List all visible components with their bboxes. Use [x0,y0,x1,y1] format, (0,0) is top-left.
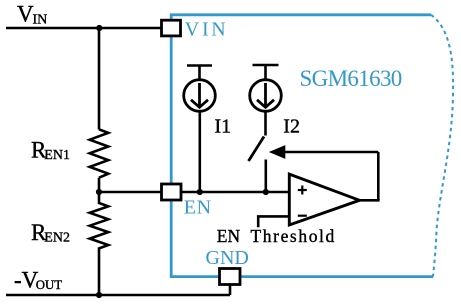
svg-text:Threshold: Threshold [251,226,336,246]
svg-text:EN: EN [217,226,241,246]
wire EN node to EN pin [99,191,162,194]
wire feedback vertical [377,152,380,200]
svg-text:I1: I1 [215,115,232,137]
svg-text:GND: GND [206,247,249,269]
wire I2 to switch [264,111,267,135]
wire switch bottom contact to EN node [264,160,267,193]
svg-text:EN2: EN2 [44,230,70,245]
node switch junction dot [263,189,269,195]
svg-text:I2: I2 [283,116,300,138]
resistor REN1 [90,129,109,177]
svg-text:OUT: OUT [36,278,62,292]
op-amp U1 comparator [289,174,359,225]
pin GND [220,269,241,285]
op-amp minus input marker [298,215,307,217]
switch control arrowhead [269,145,286,159]
svg-text:IN: IN [33,13,48,28]
wire switch control line [285,151,378,154]
svg-text:EN1: EN1 [44,148,70,163]
wire I1 to EN node [199,111,202,192]
chip boundary SGM61630 (solid edges) [171,15,433,277]
svg-text:EN: EN [184,197,212,219]
node EN divider junction dot [96,189,102,195]
wire VIN (top rail) [6,27,162,30]
wire -VOUT (bottom rail) [6,294,230,297]
pin EN [162,184,182,200]
svg-text:VIN: VIN [185,19,229,41]
op-amp plus input marker [298,186,307,195]
svg-text:SGM61630: SGM61630 [300,66,402,91]
svg-text:V: V [17,2,34,27]
wire divider vertical (tap to REN1) [98,28,101,130]
current source I2 [250,65,282,111]
pin VIN [162,20,181,36]
wire comparator output [359,199,380,202]
node divider tap (junction dot on VIN rail) [96,25,102,31]
switch S1 arm [249,137,265,162]
current source I1 [184,66,216,112]
wire GND pin drop [229,284,232,295]
resistor REN2 [90,192,109,295]
wire EN pin to comparator plus input [181,191,289,194]
chip boundary SGM61630 (dashed wavy right edge) [431,15,453,277]
wire EN threshold reference to minus input [258,216,289,227]
node I1 junction dot [197,189,203,195]
wire REN1 bottom to EN node [98,178,101,192]
node -VOUT junction dot [96,292,102,298]
